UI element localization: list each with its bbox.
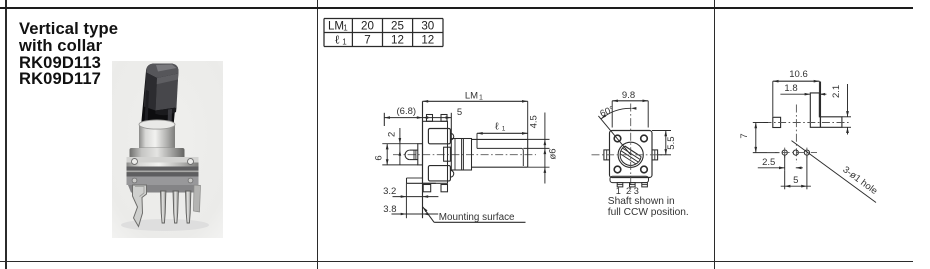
svg-text:1: 1 — [343, 23, 348, 32]
svg-text:5.5: 5.5 — [666, 136, 677, 149]
svg-text:7: 7 — [739, 133, 750, 138]
svg-text:60°: 60° — [599, 104, 617, 120]
svg-text:ø6: ø6 — [548, 148, 559, 159]
svg-text:3: 3 — [634, 186, 639, 196]
svg-text:12: 12 — [391, 34, 404, 47]
svg-text:25: 25 — [391, 20, 404, 33]
svg-text:3.8: 3.8 — [383, 204, 396, 215]
svg-text:ℓ: ℓ — [494, 122, 499, 133]
svg-text:2.5: 2.5 — [762, 157, 775, 168]
svg-text:9.8: 9.8 — [622, 90, 635, 101]
svg-text:5: 5 — [793, 175, 798, 186]
svg-text:4.5: 4.5 — [529, 115, 540, 128]
svg-text:5: 5 — [457, 107, 462, 118]
svg-text:2: 2 — [386, 132, 397, 137]
svg-text:1: 1 — [616, 186, 621, 196]
svg-text:3.2: 3.2 — [383, 186, 396, 197]
svg-text:ℓ: ℓ — [334, 33, 340, 47]
svg-text:full CCW position.: full CCW position. — [608, 207, 689, 218]
svg-text:30: 30 — [421, 20, 434, 33]
svg-text:LM: LM — [328, 20, 344, 33]
svg-text:6: 6 — [374, 155, 385, 160]
svg-text:1: 1 — [502, 126, 506, 133]
svg-text:2.1: 2.1 — [831, 85, 842, 98]
svg-text:12: 12 — [421, 34, 434, 47]
svg-text:1.8: 1.8 — [784, 83, 797, 94]
svg-text:Mounting surface: Mounting surface — [439, 212, 515, 223]
svg-text:7: 7 — [364, 34, 370, 47]
svg-text:1: 1 — [479, 94, 483, 101]
svg-text:Shaft shown in: Shaft shown in — [608, 196, 675, 207]
svg-text:10.6: 10.6 — [789, 69, 808, 80]
svg-text:2: 2 — [626, 186, 631, 196]
svg-text:20: 20 — [361, 20, 374, 33]
svg-text:LM: LM — [465, 90, 478, 101]
svg-text:(6.8): (6.8) — [397, 106, 417, 117]
svg-text:1: 1 — [342, 37, 347, 46]
